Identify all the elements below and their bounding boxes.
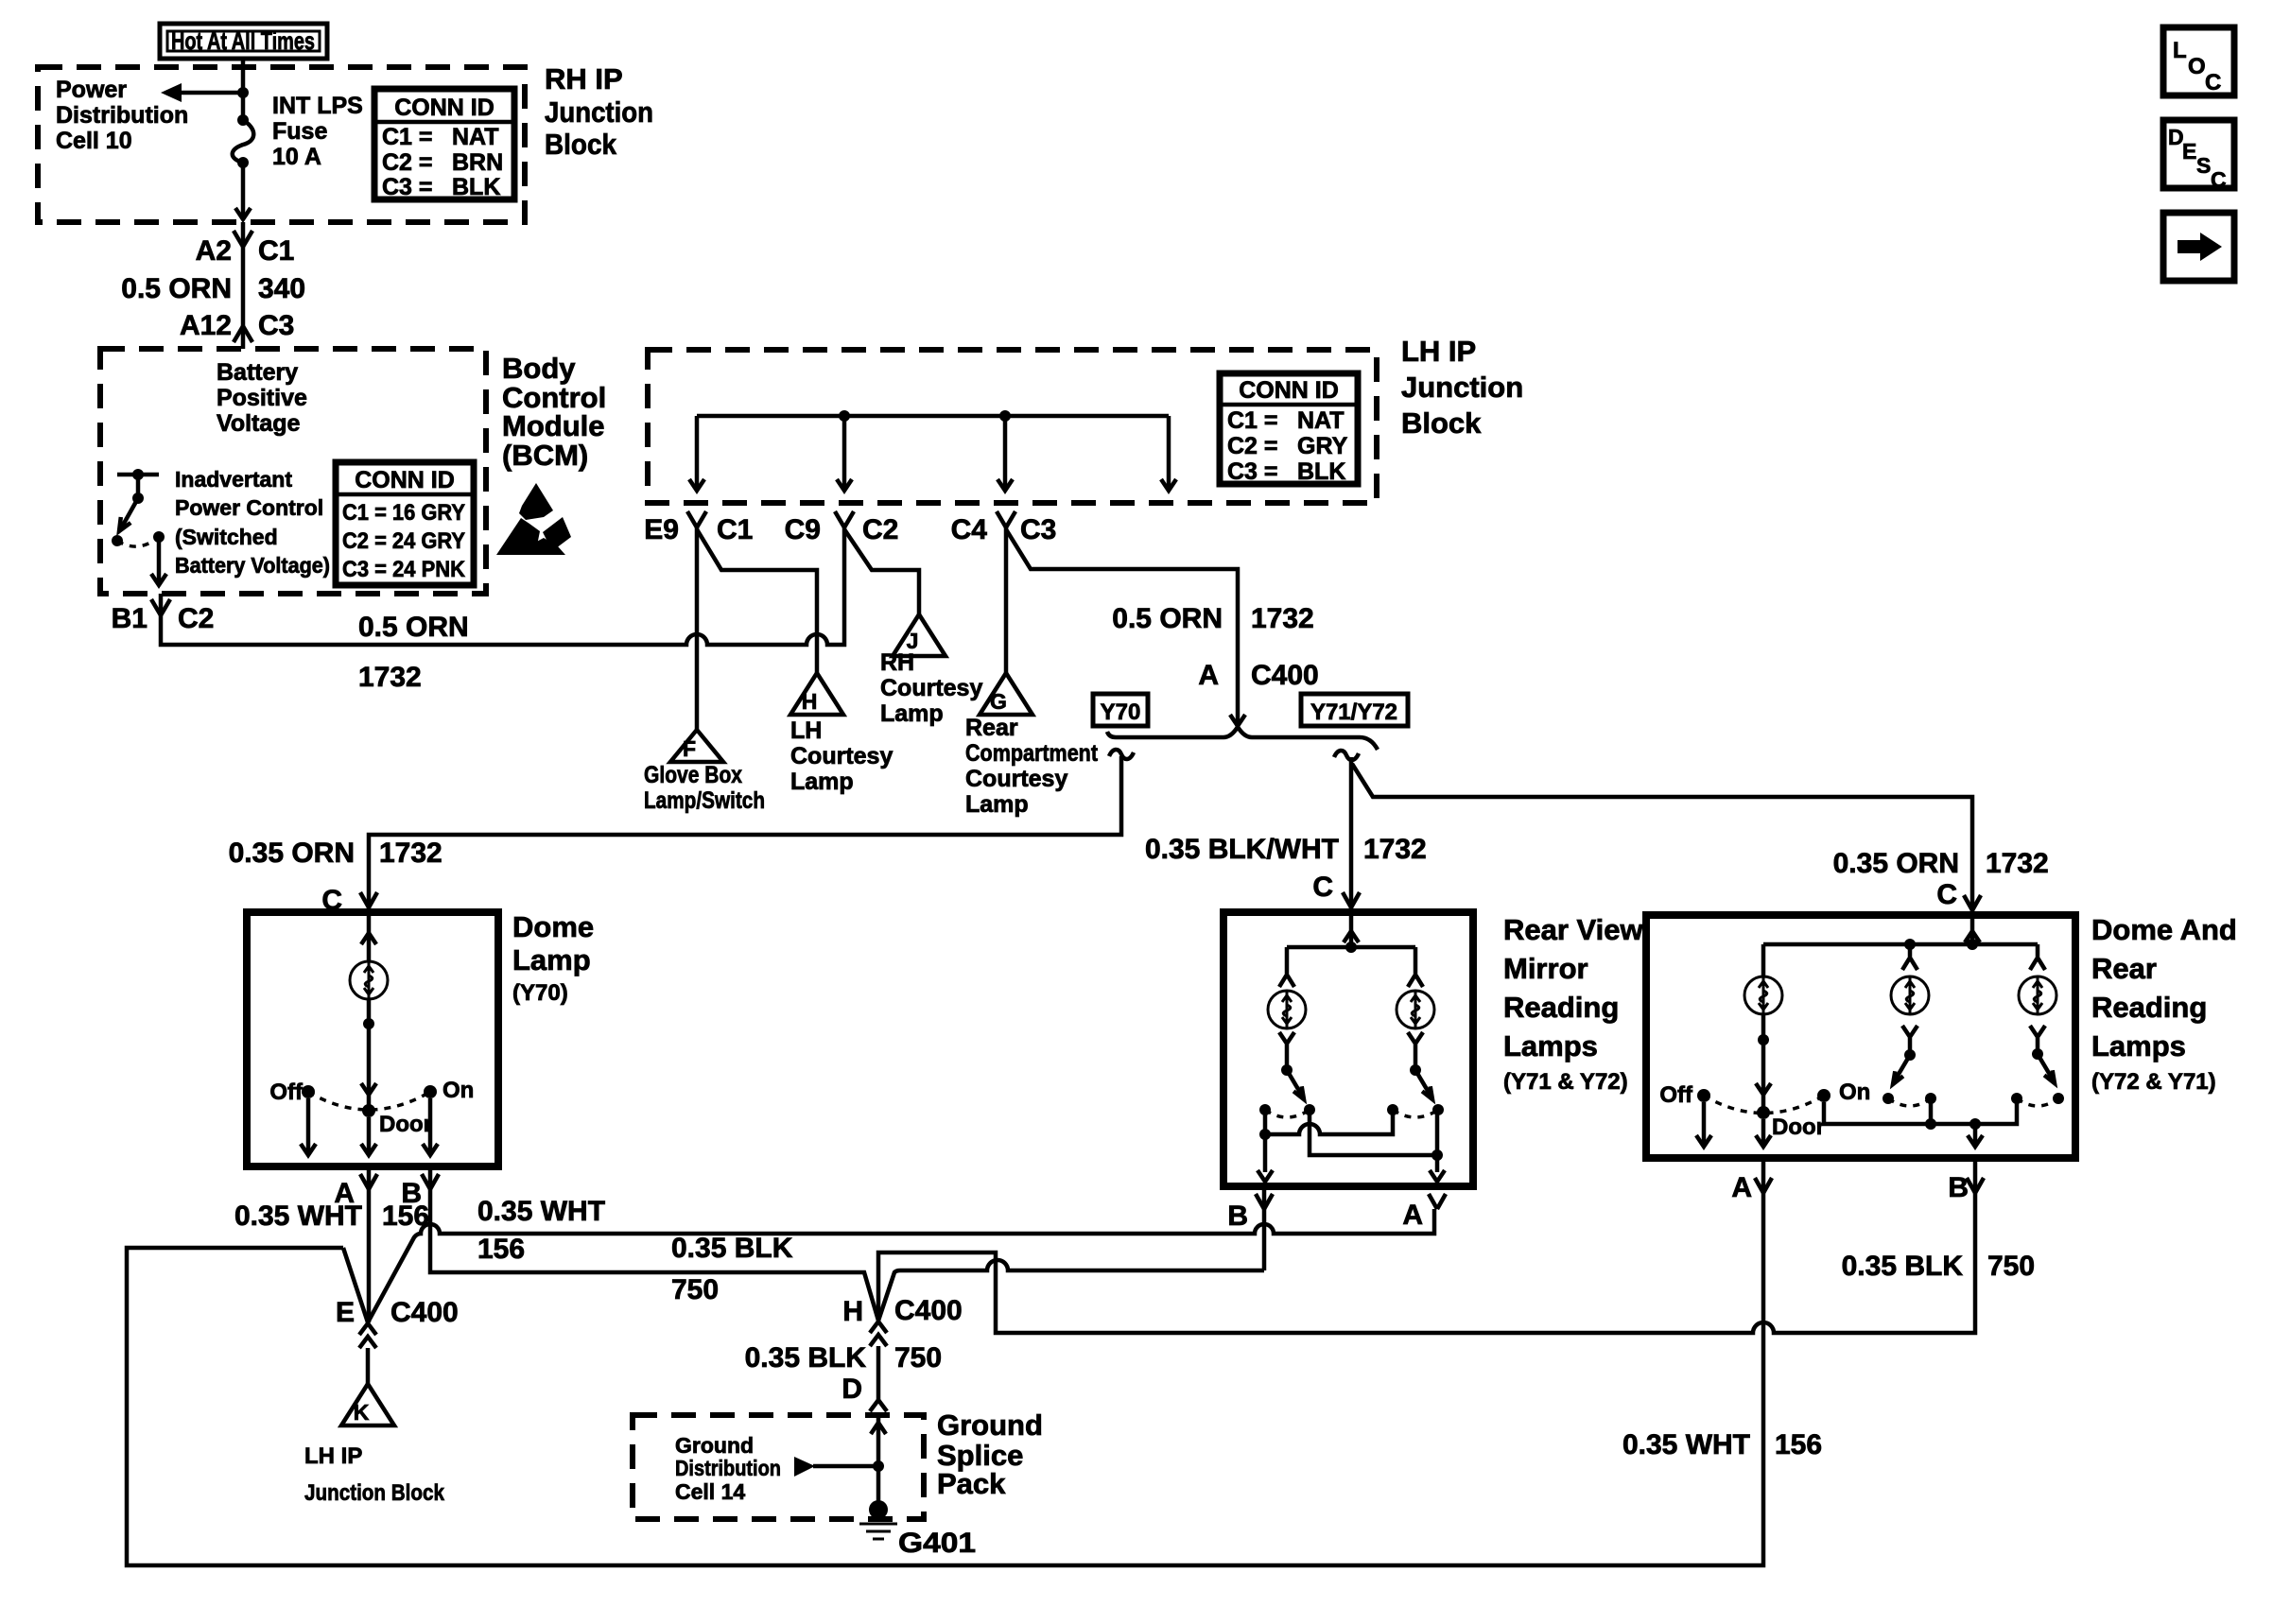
svg-text:CONN ID: CONN ID	[1239, 377, 1339, 404]
svg-text:0.35 BLK: 0.35 BLK	[745, 1342, 867, 1373]
svg-text:Distribution: Distribution	[56, 102, 188, 129]
svg-text:C400: C400	[390, 1297, 459, 1328]
svg-text:Lamp: Lamp	[512, 943, 591, 976]
svg-text:H: H	[842, 1296, 863, 1327]
svg-text:Inadvertant: Inadvertant	[175, 467, 292, 492]
svg-text:Power: Power	[56, 77, 127, 103]
svg-text:Dome And: Dome And	[2091, 913, 2237, 946]
svg-text:0.35 WHT: 0.35 WHT	[234, 1201, 362, 1232]
svg-text:Lamp: Lamp	[965, 791, 1029, 818]
svg-text:C: C	[2205, 70, 2221, 95]
svg-text:Courtesy: Courtesy	[965, 766, 1067, 792]
svg-text:C1: C1	[258, 235, 294, 267]
svg-text:Reading: Reading	[1503, 991, 1619, 1024]
svg-text:CONN ID: CONN ID	[394, 95, 495, 121]
svg-text:Battery Voltage): Battery Voltage)	[175, 553, 330, 578]
svg-text:C3: C3	[258, 310, 294, 341]
svg-text:Rear: Rear	[2091, 952, 2157, 985]
svg-text:Lamp/Switch: Lamp/Switch	[644, 787, 765, 814]
svg-text:B: B	[1948, 1172, 1969, 1203]
svg-text:Mirror: Mirror	[1503, 952, 1588, 985]
svg-text:1732: 1732	[379, 838, 442, 869]
svg-text:C1 =: C1 =	[382, 124, 433, 150]
svg-text:1732: 1732	[1251, 603, 1314, 634]
svg-text:Block: Block	[1401, 406, 1482, 440]
svg-text:Battery: Battery	[217, 359, 298, 386]
svg-text:C3 =: C3 =	[382, 174, 433, 200]
svg-text:Ground: Ground	[675, 1433, 754, 1458]
svg-text:0.35 BLK/WHT: 0.35 BLK/WHT	[1145, 834, 1339, 865]
svg-text:INT LPS: INT LPS	[272, 93, 363, 119]
svg-text:750: 750	[1987, 1251, 2035, 1282]
svg-text:NAT: NAT	[1297, 407, 1345, 434]
svg-text:1732: 1732	[358, 662, 422, 693]
svg-text:C2 =: C2 =	[1227, 433, 1278, 459]
svg-text:Power Control: Power Control	[175, 495, 323, 520]
svg-text:RH IP: RH IP	[545, 62, 623, 95]
svg-text:340: 340	[258, 273, 305, 304]
svg-text:E: E	[336, 1297, 355, 1328]
svg-text:LH IP: LH IP	[304, 1443, 362, 1469]
svg-text:C2: C2	[178, 603, 214, 634]
svg-text:0.35 WHT: 0.35 WHT	[1622, 1429, 1750, 1460]
svg-text:Rear View: Rear View	[1503, 913, 1644, 946]
svg-text:BLK: BLK	[1297, 458, 1345, 485]
svg-text:Positive: Positive	[217, 385, 307, 411]
svg-text:K: K	[354, 1400, 370, 1425]
svg-text:H: H	[802, 689, 818, 714]
svg-text:D: D	[842, 1373, 862, 1405]
svg-text:C2: C2	[862, 514, 898, 545]
svg-text:B1: B1	[112, 603, 147, 634]
svg-text:Ground: Ground	[937, 1408, 1043, 1442]
svg-text:BLK: BLK	[452, 174, 500, 200]
svg-text:0.35 ORN: 0.35 ORN	[1833, 848, 1959, 879]
svg-text:C2 =: C2 =	[382, 149, 433, 176]
svg-text:On: On	[442, 1078, 474, 1103]
svg-text:Body: Body	[502, 352, 576, 385]
svg-text:Junction: Junction	[1401, 371, 1523, 404]
svg-text:Y71/Y72: Y71/Y72	[1310, 700, 1397, 725]
svg-text:Junction: Junction	[545, 95, 653, 129]
svg-text:Lamps: Lamps	[1503, 1029, 1598, 1063]
svg-text:Reading: Reading	[2091, 991, 2207, 1024]
svg-text:NAT: NAT	[452, 124, 499, 150]
svg-text:BRN: BRN	[452, 149, 503, 176]
svg-text:Fuse: Fuse	[272, 118, 327, 145]
svg-text:C2 = 24 GRY: C2 = 24 GRY	[342, 528, 465, 554]
svg-text:1732: 1732	[1986, 848, 2049, 879]
svg-text:156: 156	[477, 1234, 525, 1265]
svg-text:Off: Off	[269, 1080, 304, 1105]
svg-text:L: L	[2173, 38, 2187, 63]
svg-text:C3 = 24 PNK: C3 = 24 PNK	[342, 557, 466, 582]
svg-text:0.35 BLK: 0.35 BLK	[671, 1233, 793, 1264]
svg-text:0.35 ORN: 0.35 ORN	[229, 838, 355, 869]
svg-text:O: O	[2188, 54, 2206, 79]
svg-text:B: B	[1227, 1201, 1248, 1232]
svg-text:F: F	[683, 736, 696, 761]
svg-text:Cell 10: Cell 10	[56, 128, 132, 154]
svg-text:Y70: Y70	[1101, 700, 1141, 725]
svg-text:G401: G401	[898, 1528, 976, 1559]
svg-text:0.35 WHT: 0.35 WHT	[477, 1196, 605, 1227]
svg-text:A2: A2	[196, 235, 232, 267]
svg-text:Junction Block: Junction Block	[304, 1480, 445, 1506]
svg-text:750: 750	[671, 1274, 719, 1305]
svg-text:G: G	[990, 689, 1007, 714]
svg-text:C1 = 16 GRY: C1 = 16 GRY	[342, 500, 465, 526]
svg-text:C3 =: C3 =	[1227, 458, 1278, 485]
svg-text:C: C	[1936, 879, 1957, 910]
svg-text:Lamps: Lamps	[2091, 1029, 2186, 1063]
svg-text:Courtesy: Courtesy	[790, 743, 893, 769]
svg-text:C4: C4	[951, 514, 988, 545]
svg-text:(Switched: (Switched	[175, 525, 278, 549]
svg-text:C1 =: C1 =	[1227, 407, 1278, 434]
svg-text:C1: C1	[717, 514, 753, 545]
svg-text:0.5 ORN: 0.5 ORN	[121, 273, 232, 304]
svg-text:Distribution: Distribution	[675, 1456, 781, 1480]
svg-text:Glove Box: Glove Box	[644, 762, 742, 788]
svg-text:Off: Off	[1659, 1082, 1693, 1108]
svg-text:Module: Module	[502, 409, 605, 442]
svg-text:Courtesy: Courtesy	[880, 675, 982, 701]
svg-text:CONN ID: CONN ID	[355, 467, 455, 493]
svg-text:S: S	[2196, 153, 2211, 178]
svg-text:RH: RH	[880, 649, 914, 676]
svg-text:On: On	[1839, 1080, 1870, 1105]
svg-text:A: A	[1731, 1172, 1752, 1203]
svg-text:E9: E9	[644, 514, 679, 545]
svg-text:LH IP: LH IP	[1401, 335, 1476, 368]
svg-text:156: 156	[1775, 1429, 1822, 1460]
svg-text:0.5 ORN: 0.5 ORN	[358, 612, 469, 643]
svg-text:C: C	[1312, 872, 1333, 903]
svg-text:GRY: GRY	[1297, 433, 1348, 459]
svg-text:C9: C9	[785, 514, 821, 545]
svg-text:10 A: 10 A	[272, 144, 321, 170]
svg-text:0.5 ORN: 0.5 ORN	[1112, 603, 1223, 634]
svg-text:Lamp: Lamp	[880, 700, 944, 727]
svg-text:E: E	[2182, 139, 2196, 164]
svg-text:A: A	[1198, 660, 1219, 691]
svg-text:(Y71 & Y72): (Y71 & Y72)	[1503, 1069, 1628, 1095]
svg-text:Voltage: Voltage	[217, 410, 301, 437]
svg-text:Compartment: Compartment	[965, 740, 1099, 767]
svg-text:A: A	[1402, 1200, 1423, 1231]
svg-text:A12: A12	[180, 310, 232, 341]
svg-text:C: C	[2211, 167, 2227, 192]
svg-text:C3: C3	[1020, 514, 1056, 545]
svg-text:Cell 14: Cell 14	[675, 1479, 745, 1504]
svg-text:Pack: Pack	[937, 1467, 1006, 1500]
svg-text:0.35 BLK: 0.35 BLK	[1842, 1251, 1964, 1282]
svg-text:Rear: Rear	[965, 715, 1018, 741]
svg-text:(BCM): (BCM)	[502, 439, 588, 472]
svg-text:(Y70): (Y70)	[512, 980, 568, 1006]
svg-text:Dome: Dome	[512, 910, 594, 943]
svg-text:C400: C400	[894, 1295, 963, 1326]
svg-text:1732: 1732	[1363, 834, 1427, 865]
svg-text:750: 750	[894, 1342, 942, 1373]
svg-text:(Y72 & Y71): (Y72 & Y71)	[2091, 1069, 2216, 1095]
svg-text:Hot At All Times: Hot At All Times	[171, 26, 315, 55]
svg-text:LH: LH	[790, 717, 822, 744]
svg-text:Door: Door	[1772, 1114, 1825, 1140]
svg-text:Block: Block	[545, 128, 617, 161]
svg-text:Lamp: Lamp	[790, 769, 854, 795]
svg-text:Door: Door	[379, 1112, 432, 1137]
svg-text:C400: C400	[1251, 660, 1319, 691]
